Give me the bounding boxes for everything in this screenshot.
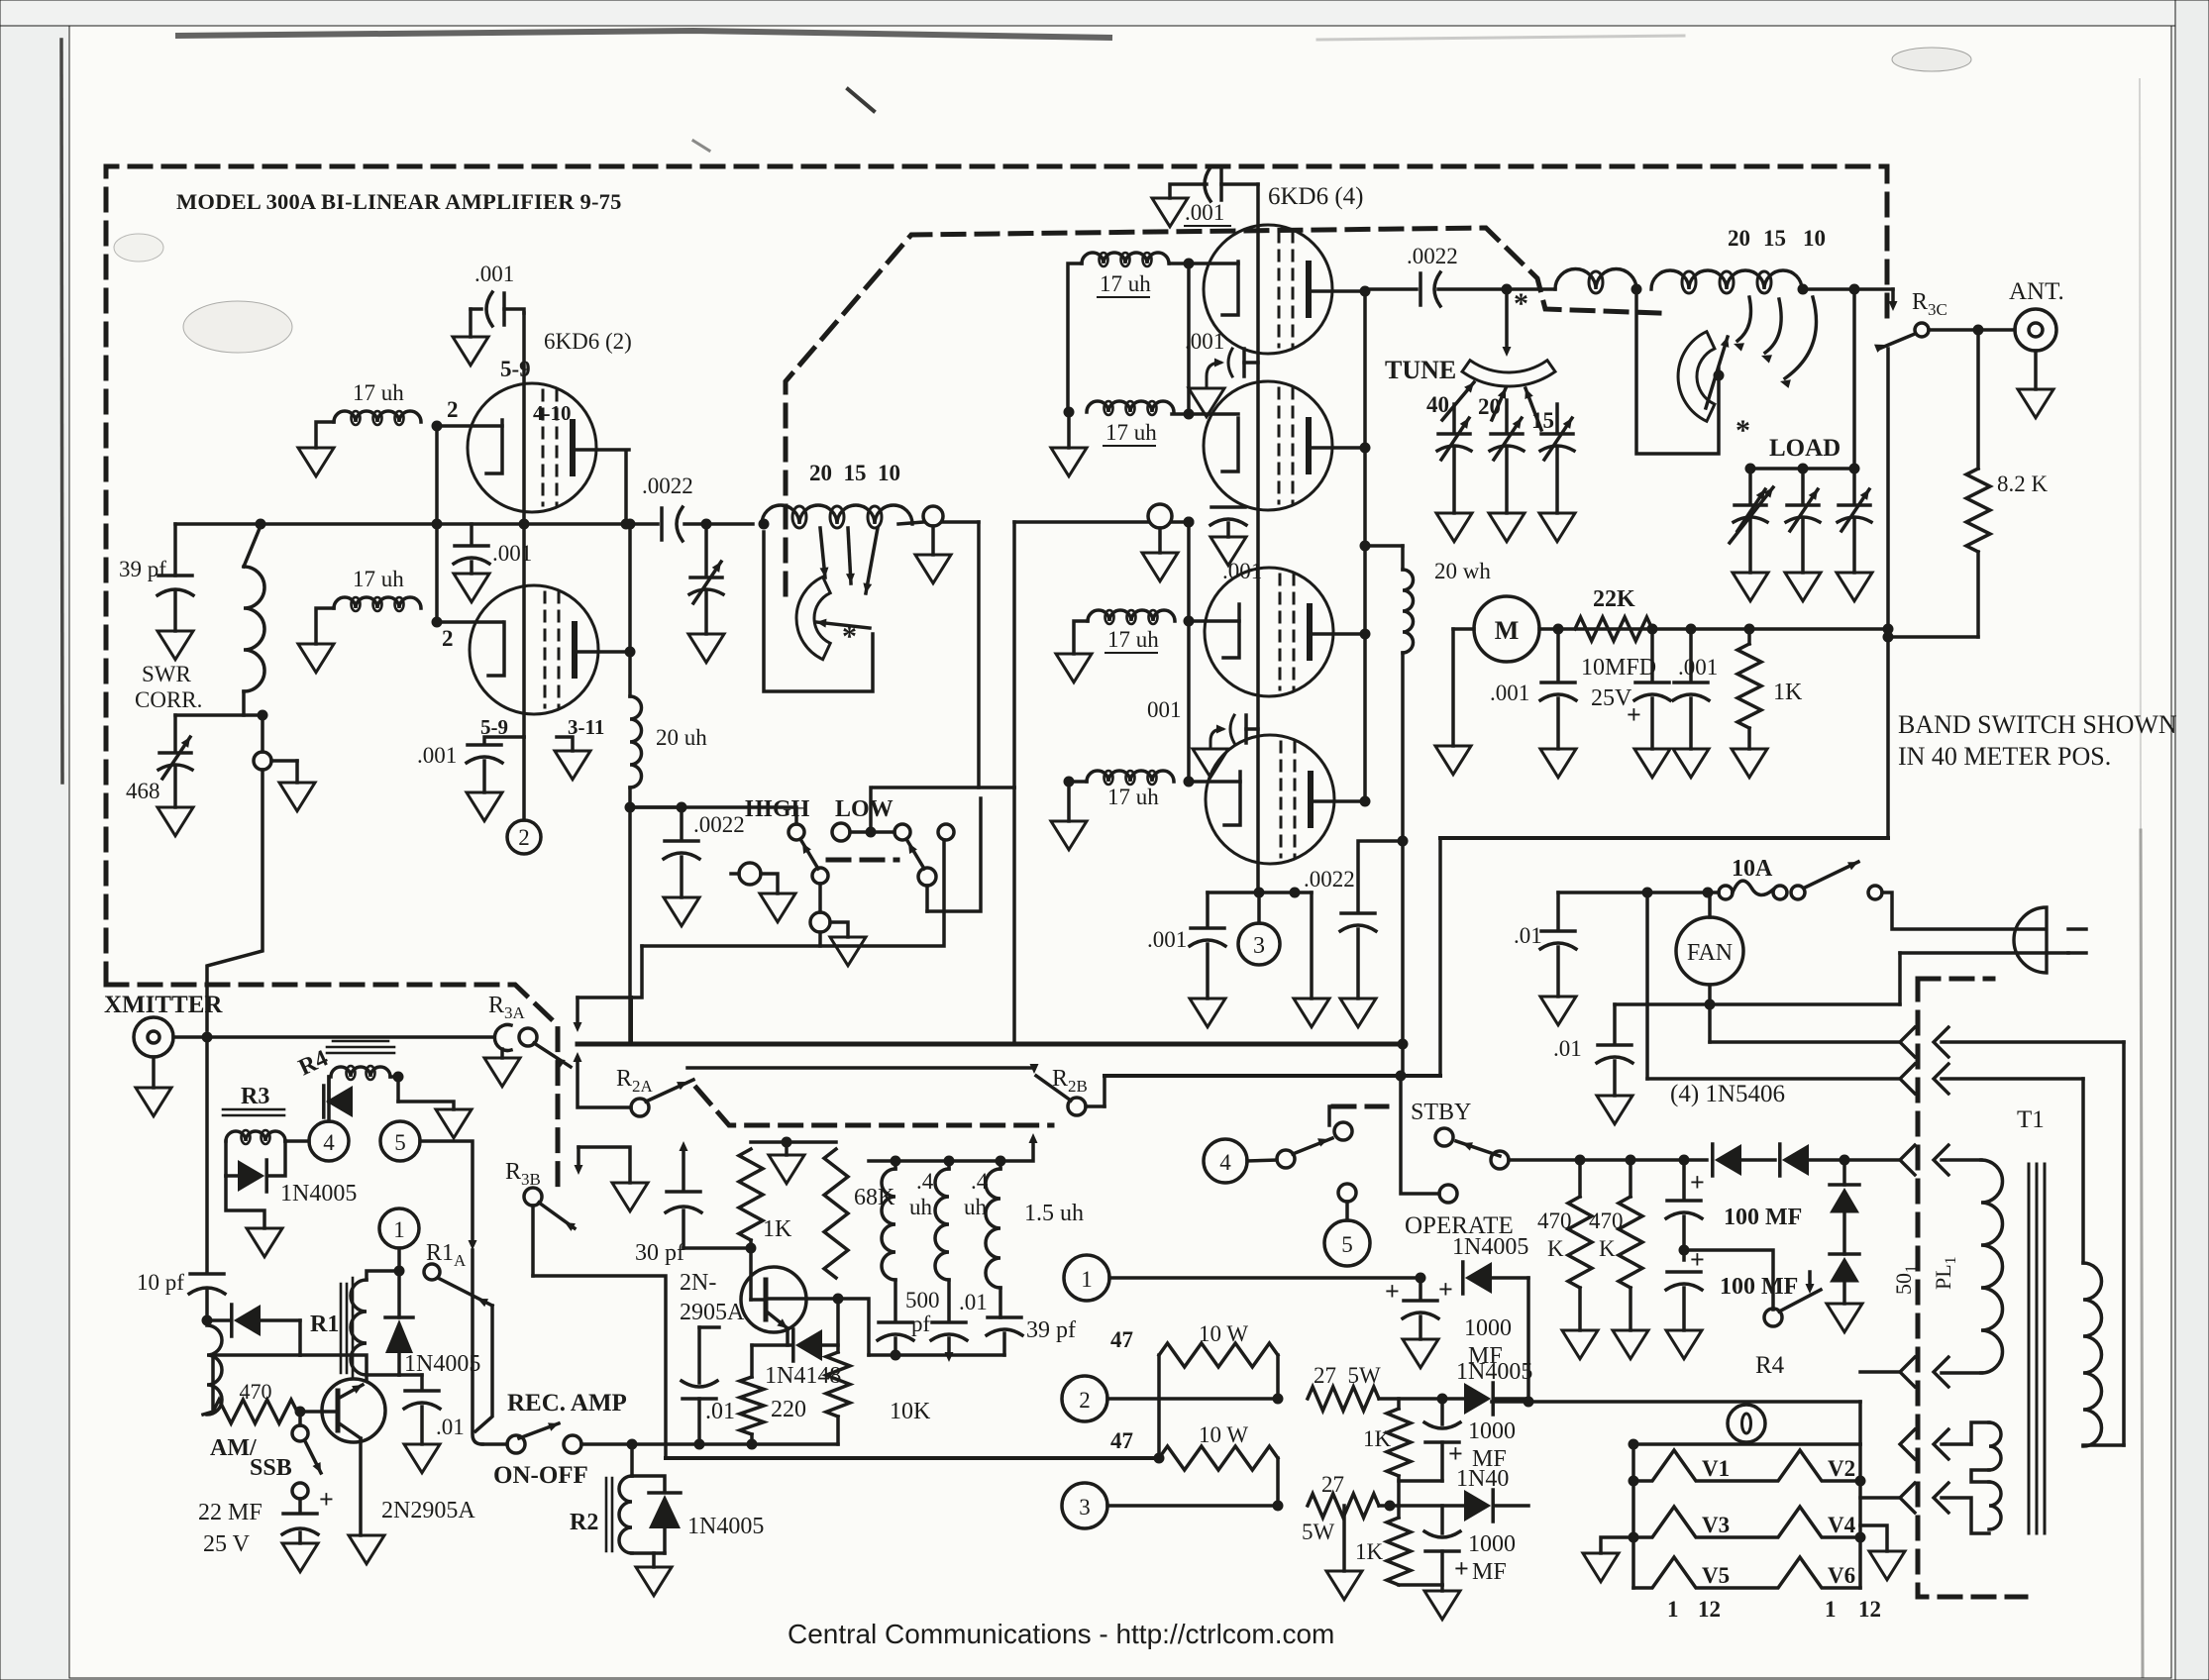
svg-text:K: K bbox=[1599, 1236, 1616, 1261]
ground XMITTER bbox=[152, 1057, 156, 1088]
svg-text:20 wh: 20 wh bbox=[1434, 559, 1491, 583]
svg-text:R3: R3 bbox=[241, 1084, 269, 1109]
tube V4 6KD6 bbox=[1206, 735, 1334, 864]
inductor plate tank coil A bbox=[1555, 269, 1636, 290]
svg-text:468: 468 bbox=[126, 779, 160, 803]
svg-text:5: 5 bbox=[394, 1130, 406, 1155]
wire filter top bus bbox=[869, 1159, 1000, 1163]
svg-text:10MFD: 10MFD bbox=[1581, 655, 1656, 681]
inductor tank coil 20 15 10 driver bbox=[762, 505, 912, 524]
resistor 470 bbox=[213, 1353, 300, 1357]
label 50-1 bbox=[1891, 1265, 1920, 1295]
inductor 20 uh bbox=[630, 696, 642, 787]
node base AM/SSB bbox=[295, 1407, 306, 1417]
svg-text:R1: R1 bbox=[310, 1312, 339, 1337]
svg-text:.0022: .0022 bbox=[642, 473, 693, 498]
switch LOW arm bbox=[906, 839, 924, 869]
tap arrows driver coil bbox=[820, 528, 825, 577]
svg-text:17 uh: 17 uh bbox=[1100, 271, 1151, 296]
svg-text:220: 220 bbox=[771, 1397, 806, 1422]
ground R4 diode bbox=[436, 1109, 472, 1138]
svg-text:IN 40 METER POS.: IN 40 METER POS. bbox=[1898, 742, 2111, 771]
capacitor .001 meter no2 bbox=[1689, 629, 1693, 681]
svg-text:LOW: LOW bbox=[835, 796, 894, 822]
capacitor .0022 plate coupling bbox=[1419, 273, 1422, 305]
ground TUNE 15 bbox=[1539, 513, 1575, 542]
svg-text:1N40: 1N40 bbox=[1456, 1466, 1509, 1492]
T1 core bbox=[2028, 1164, 2031, 1533]
tube V-left-2 6KD6 bbox=[470, 585, 598, 714]
bus rectified to T1 bbox=[1492, 1400, 1860, 1404]
svg-text:SWR: SWR bbox=[142, 662, 192, 686]
pin circle 3 psu bbox=[1062, 1483, 1107, 1528]
svg-text:2: 2 bbox=[1079, 1388, 1091, 1413]
svg-text:2N2905A: 2N2905A bbox=[381, 1498, 475, 1523]
svg-text:1K: 1K bbox=[1363, 1426, 1392, 1451]
TUNE wiper arc bbox=[1462, 361, 1555, 386]
svg-text:22 MF: 22 MF bbox=[198, 1500, 263, 1525]
wire output coil to R3C bbox=[1803, 287, 1893, 291]
capacitor .001 between left tubes bbox=[470, 524, 473, 544]
switch line arm bbox=[1805, 862, 1858, 888]
wire fan bottom bbox=[1615, 1002, 1900, 1006]
inductor 1.5 uh bbox=[986, 1169, 1000, 1288]
svg-text:1000: 1000 bbox=[1468, 1531, 1516, 1557]
capacitor .01 line no2 bbox=[1613, 1004, 1617, 1043]
svg-text:R2: R2 bbox=[570, 1510, 598, 1535]
wire to TUNE wiper bbox=[1505, 289, 1509, 349]
ground TUNE 40 bbox=[1436, 513, 1472, 542]
inductor 17 uh no2 bbox=[334, 597, 421, 608]
wire grid bus left tubes bbox=[437, 424, 502, 428]
ground R3B step bbox=[612, 1183, 648, 1211]
variable capacitor LOAD 3 bbox=[1852, 469, 1856, 503]
inductor .4 uh no1 bbox=[882, 1169, 895, 1280]
ground .01 no1 bbox=[1540, 997, 1576, 1025]
resistor 220 bbox=[750, 1345, 754, 1377]
bus B lower bbox=[1104, 1074, 1440, 1078]
capacitor .001 meter bbox=[1556, 629, 1560, 681]
ground meter left bbox=[1435, 746, 1471, 775]
wire under switches bbox=[642, 840, 944, 946]
meter 0 bbox=[1728, 1405, 1765, 1442]
switch HIGH contact bbox=[789, 824, 804, 840]
wiper arrow driver bbox=[816, 622, 870, 628]
T1 primary coil bbox=[2083, 1263, 2102, 1446]
resistor 47 10W no1 bbox=[1157, 1355, 1161, 1458]
rotary switch box driver bbox=[764, 532, 873, 691]
diode 1N4005 R1 bbox=[397, 1271, 401, 1317]
svg-text:17 uh: 17 uh bbox=[353, 567, 404, 591]
pin circle 4 mid bbox=[1204, 1139, 1247, 1183]
pin circle 2 psu bbox=[1062, 1376, 1107, 1421]
pin circle 1 psu bbox=[1064, 1255, 1109, 1301]
capacitor .01 filter bbox=[932, 1320, 966, 1324]
inductor SWR CORR coil bbox=[244, 567, 264, 691]
switch LOW pivot circle bbox=[918, 868, 936, 886]
diode 1N5406 no2 bbox=[1782, 1144, 1809, 1176]
svg-text:5-9: 5-9 bbox=[500, 357, 531, 381]
svg-text:1000: 1000 bbox=[1464, 1315, 1512, 1341]
ground 17uh no5 bbox=[1056, 654, 1092, 682]
svg-text:V5: V5 bbox=[1702, 1563, 1730, 1588]
variable capacitor TUNE 20 bbox=[1505, 400, 1509, 432]
variable capacitor LOAD 2 bbox=[1801, 469, 1805, 503]
switch line contact bbox=[1868, 886, 1882, 899]
label OPERATE bbox=[1439, 1185, 1457, 1203]
ground R3 bbox=[247, 1228, 282, 1257]
wire R2A to R2B bus D bbox=[687, 1066, 1034, 1070]
inductor xmitter coil bbox=[207, 1325, 222, 1415]
svg-text:REC. AMP: REC. AMP bbox=[507, 1390, 627, 1417]
ground LOAD 3 bbox=[1837, 573, 1872, 601]
svg-text:.001: .001 bbox=[1490, 681, 1529, 705]
wire plate top to .0022 bbox=[1365, 287, 1417, 291]
ground .001 under tube4 bbox=[1190, 998, 1225, 1027]
dashed box around PL1 / T1 bbox=[1918, 977, 1993, 982]
ground HIGH connector no2 bbox=[830, 937, 866, 966]
svg-text:1: 1 bbox=[1081, 1267, 1093, 1292]
svg-text:+: + bbox=[1438, 1275, 1453, 1304]
ground .0022 no3 bbox=[1340, 998, 1376, 1027]
resistor 47 10W no2 bbox=[1159, 1446, 1278, 1470]
diode pair bias bbox=[1842, 1160, 1846, 1185]
ground .001 between left tubes bbox=[454, 574, 489, 602]
filament network top bus bbox=[1633, 1442, 1860, 1446]
svg-text:.4: .4 bbox=[916, 1169, 934, 1194]
svg-text:12: 12 bbox=[1858, 1597, 1881, 1622]
inductor output coil 20 15 10 bbox=[1651, 270, 1802, 289]
wire 470 box to emitter bbox=[300, 1355, 367, 1379]
ground .001 under left tube2 bbox=[467, 792, 502, 821]
svg-text:+: + bbox=[1448, 1439, 1463, 1468]
svg-text:2: 2 bbox=[447, 397, 459, 422]
capacitor .0022 coupling no1 bbox=[660, 508, 664, 540]
svg-text:30 pf: 30 pf bbox=[635, 1240, 684, 1266]
svg-text:6KD6 (4): 6KD6 (4) bbox=[1268, 183, 1364, 210]
diode 1N4005 R2 bbox=[632, 1476, 665, 1491]
svg-text:8.2 K: 8.2 K bbox=[1997, 472, 2049, 496]
svg-text:.0022: .0022 bbox=[1407, 244, 1458, 268]
switch LOW contact bbox=[894, 824, 910, 840]
wire to plug bbox=[1882, 892, 2045, 929]
svg-text:27: 27 bbox=[1321, 1472, 1344, 1497]
svg-text:.001: .001 bbox=[1185, 200, 1224, 225]
svg-text:ON-OFF: ON-OFF bbox=[493, 1462, 588, 1489]
svg-text:470: 470 bbox=[1537, 1208, 1572, 1233]
svg-text:12: 12 bbox=[1698, 1597, 1721, 1622]
ground R3A bbox=[484, 1058, 520, 1087]
capacitor .0022 no2 under 20uh bbox=[630, 805, 682, 809]
svg-text:4: 4 bbox=[323, 1130, 335, 1155]
ground under connector bbox=[279, 783, 315, 811]
wire node 468 bbox=[175, 713, 263, 717]
svg-text:100 MF: 100 MF bbox=[1724, 1205, 1802, 1230]
svg-text:47: 47 bbox=[1110, 1327, 1133, 1352]
switch R3C bbox=[1915, 323, 1929, 337]
svg-text:.01: .01 bbox=[959, 1290, 988, 1314]
plate bus middle bbox=[1363, 289, 1367, 799]
diode 1N4005 xmitter bbox=[202, 1315, 213, 1326]
svg-text:17 uh: 17 uh bbox=[1107, 785, 1159, 809]
svg-text:V6: V6 bbox=[1828, 1563, 1855, 1588]
PL1 pins HV bbox=[1900, 1145, 1915, 1175]
switch LOW left circle bbox=[832, 823, 850, 841]
svg-text:.001: .001 bbox=[1222, 559, 1262, 583]
capacitor .01 no4 bbox=[697, 1399, 701, 1444]
wire filament to PL1 bbox=[1860, 1496, 1900, 1500]
ground LOAD 2 bbox=[1785, 573, 1821, 601]
svg-text:*: * bbox=[842, 620, 857, 653]
svg-text:2905A: 2905A bbox=[680, 1300, 745, 1325]
wire meter right bus bbox=[1539, 627, 1888, 631]
svg-text:001: 001 bbox=[1147, 697, 1182, 722]
meter M bbox=[1474, 596, 1539, 662]
svg-text:470: 470 bbox=[240, 1379, 272, 1404]
bus top of PS section bbox=[1440, 836, 1888, 840]
capacitor 39 pf no2 bbox=[988, 1315, 1021, 1319]
ground filament left bbox=[1601, 1537, 1633, 1553]
wire right vertical to bus A bbox=[1401, 841, 1405, 1075]
connector circle driver coil output bbox=[923, 506, 943, 526]
ground ANT bbox=[2034, 351, 2038, 389]
connector ANT bbox=[2015, 309, 2056, 351]
svg-text:3: 3 bbox=[1079, 1495, 1091, 1520]
wire lower line to PL1 bbox=[1645, 892, 1649, 1079]
switch AM/SSB bbox=[298, 1412, 302, 1425]
diode 1N4005 R3 bbox=[238, 1160, 264, 1192]
dashed mid boundary through driver stage bbox=[786, 228, 1659, 594]
svg-text:pf: pf bbox=[911, 1312, 931, 1336]
ground 1000MF no1 bbox=[1403, 1339, 1438, 1368]
inductor 17uh no5 bbox=[1088, 610, 1175, 621]
wire fuse bus bbox=[1558, 891, 1719, 894]
ground 2N2905A no1 bbox=[349, 1535, 384, 1564]
svg-text:.0022: .0022 bbox=[693, 812, 745, 837]
dashed link near switch 4 bbox=[1333, 1104, 1387, 1109]
svg-text:.001: .001 bbox=[417, 743, 457, 768]
wire R3 to ground bbox=[226, 1176, 264, 1228]
svg-text:V1: V1 bbox=[1702, 1456, 1730, 1481]
capacitor .001 between tubes 2-3 bbox=[1211, 505, 1245, 509]
ground 1000MF no3 bbox=[1440, 1585, 1444, 1591]
svg-text:.001: .001 bbox=[474, 262, 514, 286]
pin circle 5 mid bbox=[1324, 1220, 1370, 1266]
scanner edge artifacts bbox=[0, 0, 2209, 26]
variable capacitor 468 bbox=[173, 715, 177, 751]
pin circle 3 middle heater bbox=[1257, 892, 1261, 923]
svg-text:V3: V3 bbox=[1702, 1513, 1730, 1537]
ground .001 meter bbox=[1540, 749, 1576, 778]
svg-text:5-9: 5-9 bbox=[480, 715, 508, 739]
svg-text:1N4005: 1N4005 bbox=[687, 1514, 764, 1539]
fan motor bbox=[1708, 892, 1712, 917]
wire .0022 node to HIGH contact bbox=[633, 805, 682, 809]
capacitor 100MF no1 bbox=[1682, 1160, 1686, 1199]
wire bus B up to fan vertical bbox=[1438, 838, 1442, 1076]
inductor .4 uh no2 bbox=[935, 1169, 949, 1280]
PL1 pins HV return bbox=[1900, 1357, 1915, 1387]
resistor 27 5W no1 bbox=[1308, 1387, 1379, 1411]
svg-text:2: 2 bbox=[518, 825, 530, 850]
svg-text:.01: .01 bbox=[705, 1399, 735, 1424]
svg-text:500: 500 bbox=[905, 1288, 940, 1312]
wire input bus y529 bbox=[175, 522, 658, 526]
svg-text:.0022: .0022 bbox=[1304, 867, 1355, 892]
heater V1 bbox=[1633, 1450, 1860, 1481]
capacitor 39 pf bbox=[173, 524, 177, 576]
capacitor 1000MF no3 bbox=[1440, 1506, 1444, 1533]
svg-text:1: 1 bbox=[1667, 1597, 1679, 1622]
svg-text:V2: V2 bbox=[1828, 1456, 1855, 1481]
svg-text:6KD6 (2): 6KD6 (2) bbox=[544, 329, 632, 354]
resistor 68K bbox=[824, 1149, 848, 1278]
rotary wiper arc driver bbox=[796, 577, 830, 659]
svg-text:.01: .01 bbox=[1553, 1036, 1582, 1061]
dashed border top-left-right of RF section bbox=[106, 166, 1887, 985]
connector circle HIGH no1 bbox=[739, 863, 761, 885]
svg-text:5: 5 bbox=[1341, 1232, 1353, 1257]
diode 1N5406 no1 bbox=[1715, 1144, 1741, 1176]
svg-text:10K: 10K bbox=[890, 1399, 931, 1424]
capacitor .001 top left horizontal bbox=[471, 307, 481, 311]
ground 10MFD bbox=[1634, 749, 1670, 778]
capacitor 500 pf bbox=[879, 1320, 912, 1324]
inductor 17uh no4 bbox=[1087, 401, 1174, 412]
svg-text:1: 1 bbox=[393, 1217, 405, 1242]
svg-text:4: 4 bbox=[1219, 1150, 1231, 1175]
capacitor 10MFD 25V bbox=[1650, 629, 1654, 681]
svg-text:STBY: STBY bbox=[1411, 1100, 1471, 1125]
heater line middle column bbox=[1256, 184, 1260, 892]
svg-text:.01: .01 bbox=[436, 1415, 465, 1439]
svg-text:10 W: 10 W bbox=[1199, 1321, 1248, 1346]
svg-text:1: 1 bbox=[1825, 1597, 1837, 1622]
switch HIGH arm bbox=[800, 839, 818, 869]
svg-text:27 5W: 27 5W bbox=[1314, 1363, 1381, 1388]
capacitor .001 top middle bbox=[1219, 168, 1223, 200]
svg-text:BAND SWITCH SHOWN: BAND SWITCH SHOWN bbox=[1898, 710, 2177, 739]
rotary wiper arc output bbox=[1678, 332, 1715, 422]
bus A main B+ return bbox=[578, 1042, 1403, 1047]
R3B nc step bbox=[579, 1147, 630, 1183]
svg-text:470: 470 bbox=[1589, 1208, 1624, 1233]
wire circle5 to R1A arrow bbox=[420, 1141, 473, 1243]
svg-text:1K: 1K bbox=[1773, 680, 1803, 705]
arrow down xmitter link bbox=[576, 997, 579, 1026]
wire plug return bbox=[1900, 951, 2068, 955]
bus C 12V bbox=[666, 1456, 1159, 1460]
inductor 17uh no3 bbox=[1082, 253, 1169, 263]
ground TUNE 20 bbox=[1489, 513, 1525, 542]
filament network right rail bbox=[1858, 1402, 1862, 1588]
transistor 2N2905A no1 bbox=[322, 1379, 385, 1442]
wiper arrow output bbox=[1706, 337, 1728, 408]
capacitor 100MF no2 bbox=[1667, 1270, 1701, 1274]
svg-text:1.5 uh: 1.5 uh bbox=[1024, 1201, 1084, 1226]
connector circle mid grid bbox=[1014, 520, 1148, 524]
capacitor 1000MF no1 bbox=[1419, 1278, 1422, 1299]
svg-text:1N4005: 1N4005 bbox=[1456, 1359, 1532, 1385]
resistor 1K psu no1 bbox=[1397, 1399, 1401, 1409]
ground mid grid connector bbox=[1142, 553, 1178, 581]
wire meter left bbox=[1453, 627, 1474, 631]
ground R2 bbox=[652, 1553, 656, 1567]
variable capacitor TUNE 15 bbox=[1555, 404, 1559, 432]
pin circle 1 bbox=[379, 1208, 419, 1248]
ground cap tubes 3-4 bbox=[1193, 749, 1228, 778]
svg-text:17 uh: 17 uh bbox=[353, 380, 404, 405]
resistor 470K no1 bbox=[1578, 1160, 1582, 1197]
tube V1 6KD6 bbox=[1204, 225, 1332, 354]
T1 secondary HV coil bbox=[1942, 1158, 1981, 1162]
ground HIGH connector no1 bbox=[760, 893, 795, 922]
svg-text:SSB: SSB bbox=[250, 1455, 292, 1481]
svg-text:CORR.: CORR. bbox=[135, 687, 202, 712]
svg-text:1K: 1K bbox=[1355, 1539, 1384, 1564]
ground .001 no2 bbox=[1673, 749, 1709, 778]
ground 17uh no1 bbox=[298, 448, 334, 476]
ground diode pair bbox=[1827, 1304, 1862, 1332]
capacitor 10 pf bbox=[205, 1037, 209, 1271]
capacitor .001 under tube4 bbox=[1206, 892, 1210, 926]
variable capacitor LOAD 1 bbox=[1748, 469, 1752, 503]
heater V5 bbox=[1633, 1557, 1860, 1588]
capacitor .001 under left tube 2 bbox=[484, 737, 524, 743]
heater line left tube column bbox=[522, 313, 526, 737]
wire fan to PL1 pin bbox=[1708, 985, 1712, 1042]
svg-text:17 uh: 17 uh bbox=[1105, 420, 1157, 445]
svg-text:20 uh: 20 uh bbox=[656, 725, 707, 750]
svg-text:25V: 25V bbox=[1591, 685, 1632, 711]
inductor 17 uh no1 bbox=[334, 411, 421, 422]
tube V3 6KD6 bbox=[1205, 568, 1333, 696]
ground 470K no1 bbox=[1562, 1330, 1598, 1359]
dashed link HIGH-LOW switch bbox=[828, 858, 897, 863]
switch LOW nc circle bbox=[938, 824, 954, 840]
wire grid-bus feed from HIGH/LOW bbox=[1012, 522, 1016, 787]
svg-text:20: 20 bbox=[1728, 226, 1750, 251]
svg-text:20 15 10: 20 15 10 bbox=[809, 461, 900, 485]
ground 3-11 grid bbox=[557, 737, 573, 751]
ground 17uh 3+4 bbox=[1051, 448, 1087, 476]
resistor 1K meter bbox=[1747, 629, 1751, 644]
wire plate bus left tubes bbox=[624, 453, 628, 524]
resistor 10K bbox=[836, 1299, 840, 1352]
svg-text:5W: 5W bbox=[1302, 1520, 1335, 1544]
inductor 20 wh bbox=[1401, 546, 1405, 570]
svg-text:15: 15 bbox=[1763, 226, 1786, 251]
svg-text:10A: 10A bbox=[1732, 856, 1773, 882]
ground 470K no2 bbox=[1613, 1330, 1648, 1359]
svg-text:+: + bbox=[1454, 1554, 1469, 1583]
svg-text:1K: 1K bbox=[763, 1216, 792, 1242]
ground .001 top-left bbox=[453, 337, 488, 366]
LOAD bus bbox=[1852, 289, 1856, 469]
resistor 27 5W no2 bbox=[1308, 1494, 1379, 1518]
svg-text:47: 47 bbox=[1110, 1428, 1133, 1453]
ground cap between tubes 1-2 bbox=[1189, 388, 1224, 417]
pin circle 5 bbox=[380, 1121, 420, 1161]
ground LOAD 1 bbox=[1733, 573, 1768, 601]
svg-text:.001: .001 bbox=[1147, 927, 1187, 952]
capacitor 22MF 25V bbox=[298, 1499, 302, 1512]
resistor 22K bbox=[1575, 617, 1652, 641]
svg-text:HIGH: HIGH bbox=[745, 796, 810, 822]
switch R4 contact bbox=[1684, 1250, 1773, 1310]
connector circle HIGH no2 bbox=[810, 912, 830, 932]
wire SWR down to xmitter bus bbox=[207, 770, 263, 1030]
